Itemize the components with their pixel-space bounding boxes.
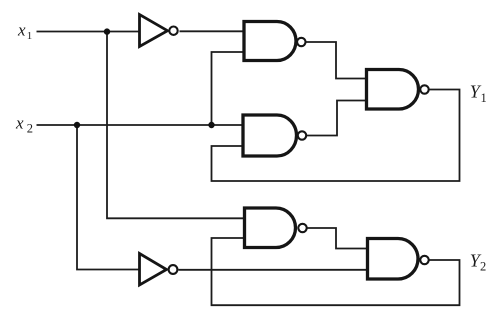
svg-text:x: x [15, 114, 24, 133]
svg-text:1: 1 [27, 30, 33, 42]
svg-text:2: 2 [27, 122, 33, 136]
svg-text:x: x [17, 21, 26, 40]
svg-text:2: 2 [480, 260, 486, 274]
svg-text:1: 1 [481, 91, 487, 105]
